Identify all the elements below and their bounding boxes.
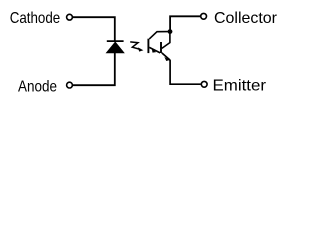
terminal anode (bottom-left circle) — [67, 82, 73, 88]
transistor Q1 collector lead — [149, 32, 168, 39]
wire collector terminal to collector node — [170, 16, 200, 31]
node collector junction dot — [168, 29, 173, 34]
transistor Q1 base bar — [147, 39, 149, 53]
svg-text:Anode: Anode — [18, 79, 57, 96]
svg-text:Emitter: Emitter — [213, 78, 267, 95]
terminal collector (top-right circle) — [201, 13, 207, 19]
terminal emitter (bottom-right circle) — [201, 81, 207, 87]
transistor Q1 emitter lead into Q2 base — [149, 47, 160, 53]
transistor Q2 emitter lead — [162, 53, 201, 84]
transistor Q2 emitter arrowhead — [164, 57, 169, 61]
terminal cathode (top-left circle) — [67, 14, 73, 20]
light arrow head — [138, 47, 144, 51]
wire cathode terminal to LED top — [73, 17, 115, 40]
transistor Q2 base bar — [160, 42, 162, 53]
svg-text:Collector: Collector — [214, 10, 278, 27]
transistor Q1 emitter arrowhead — [152, 49, 156, 53]
transistor Q2 collector lead to dot — [162, 31, 170, 49]
diode D1 cathode bar — [107, 40, 124, 42]
diode D1 triangle (anode, pointing up) — [106, 42, 124, 53]
svg-text:Cathode: Cathode — [10, 10, 61, 27]
wire LED bottom to anode terminal — [73, 53, 115, 86]
light arrow (zigzag) LED to phototransistor — [130, 42, 140, 50]
